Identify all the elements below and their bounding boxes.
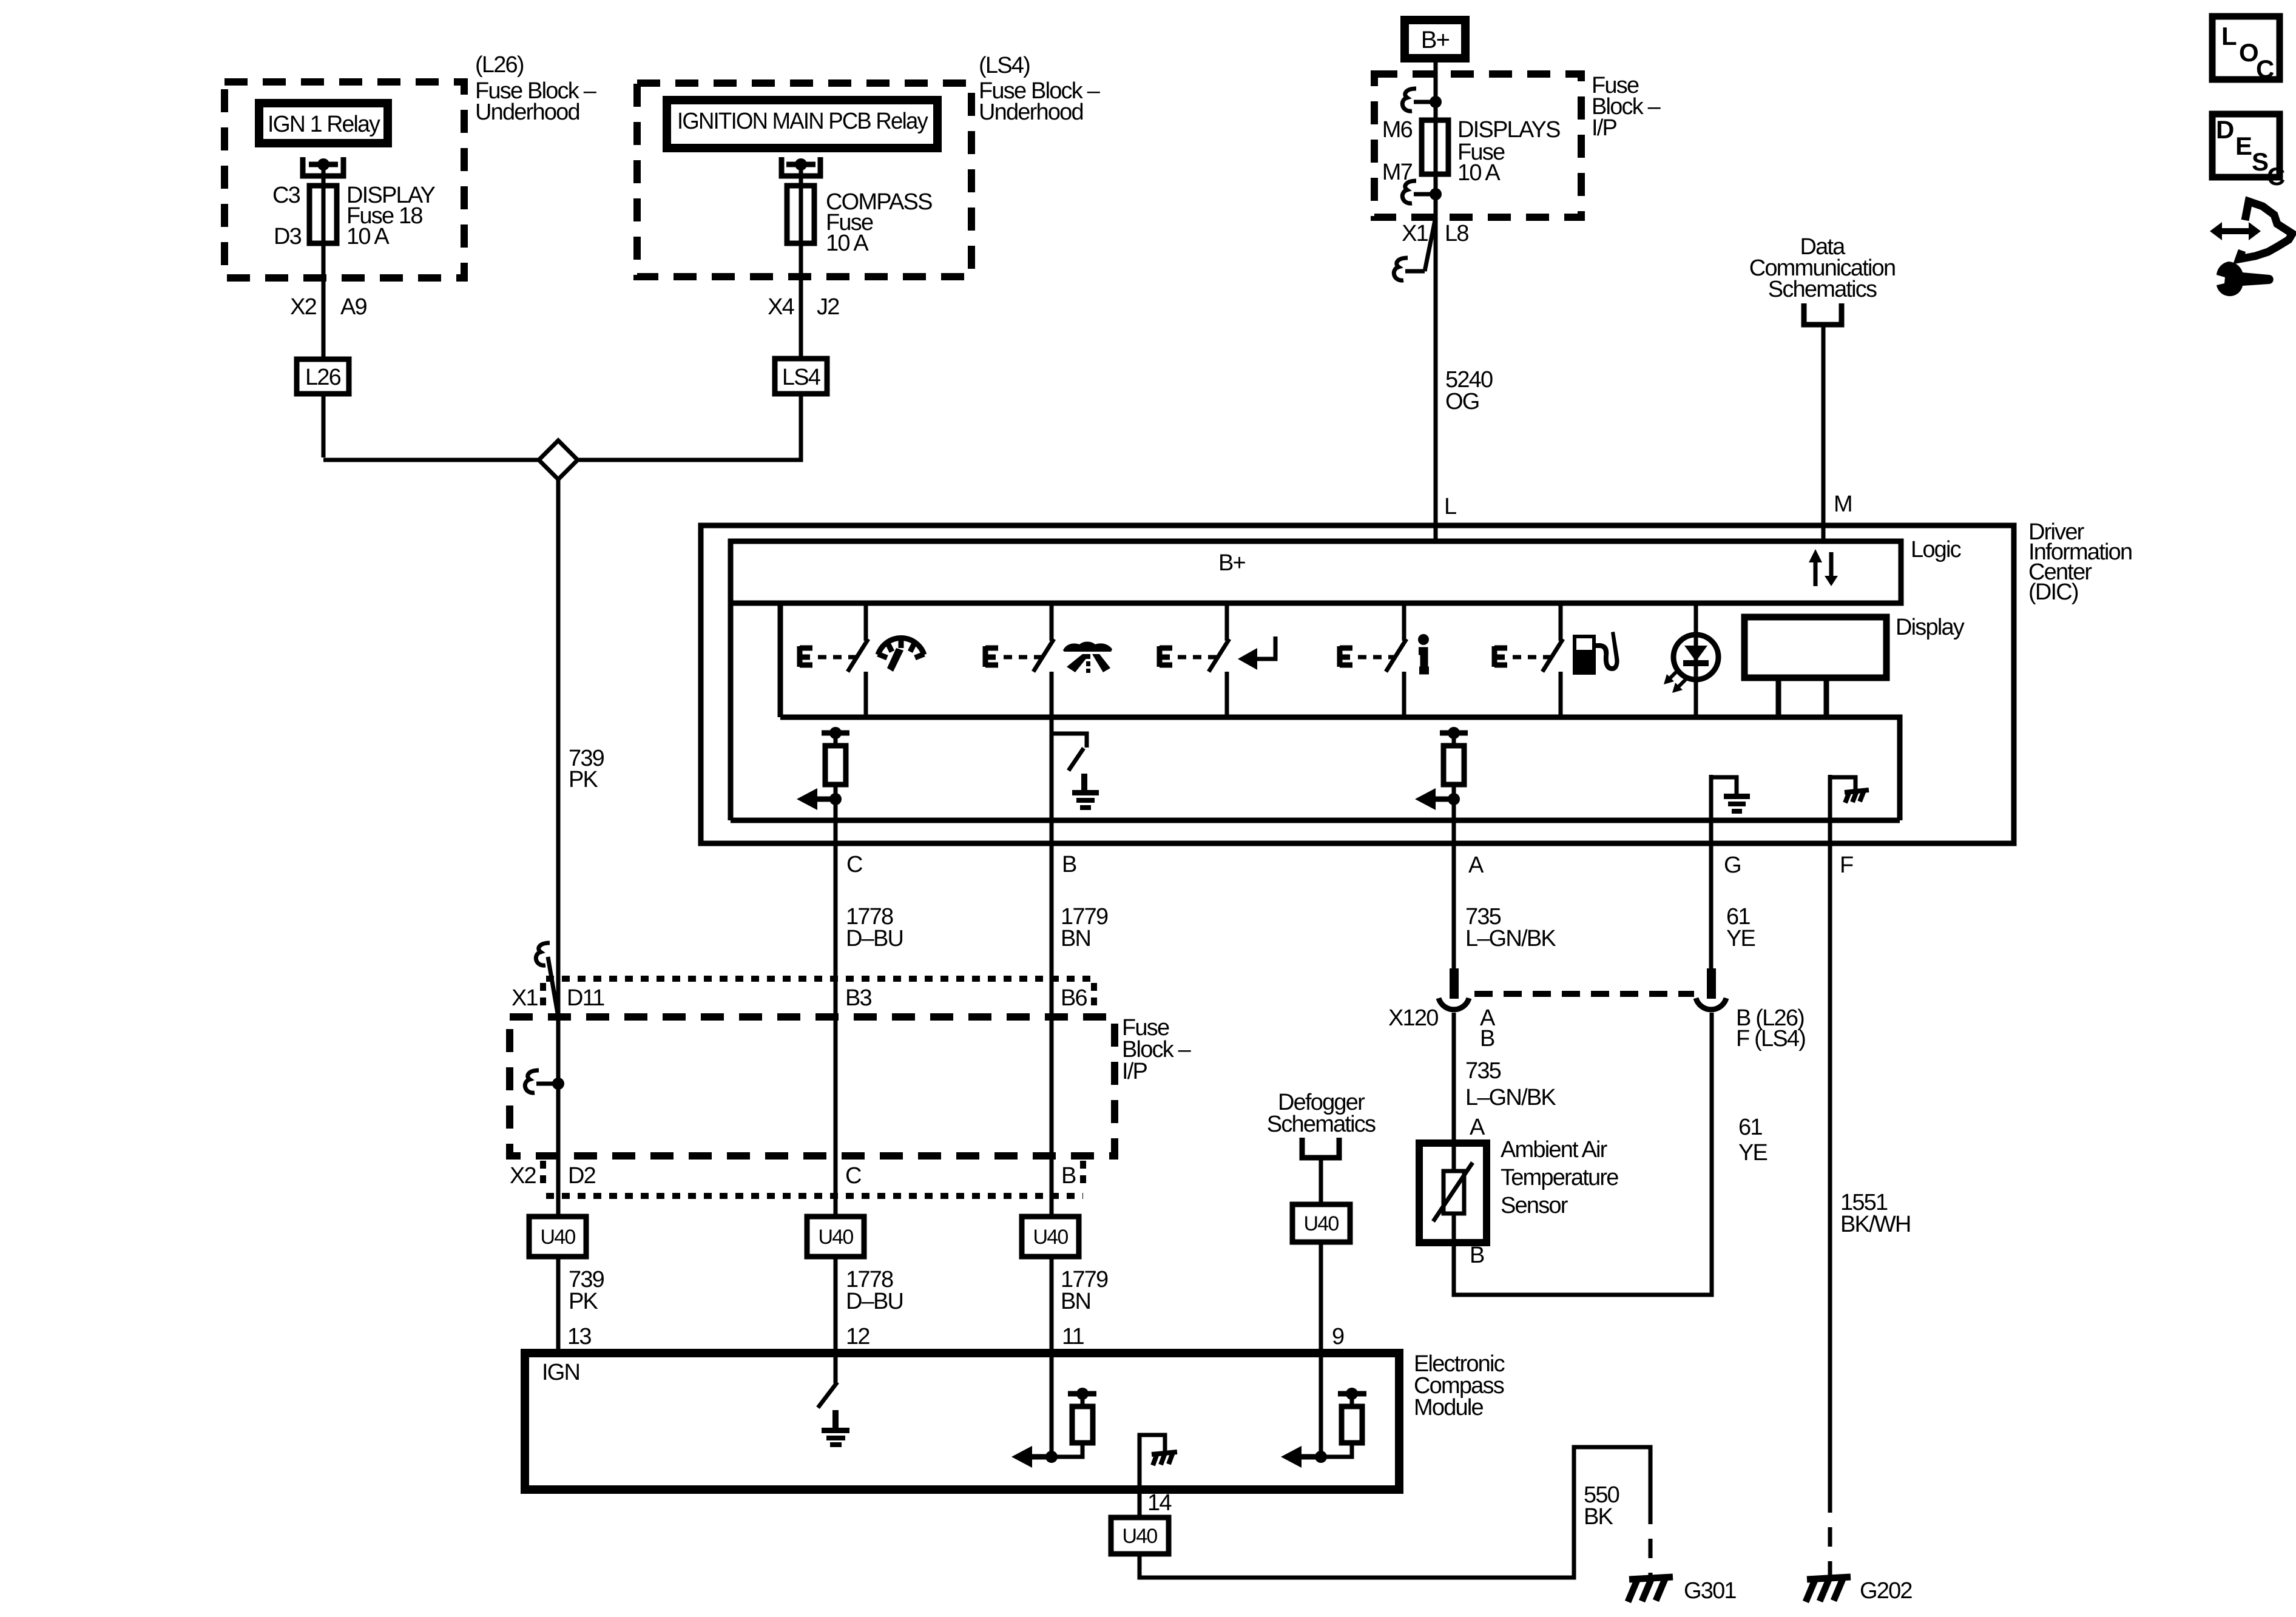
icon info i [1418,634,1429,645]
relay K2 IGNITION MAIN PCB Relay box [667,100,937,148]
svg-text:D–BU: D–BU [846,926,903,951]
svg-text:10 A: 10 A [1457,160,1501,186]
labels X2 D2 C B [510,1163,1076,1189]
node junction dot A branch [1448,793,1460,805]
svg-text:X4: X4 [768,294,795,320]
svg-text:X120: X120 [1388,1005,1438,1031]
module U2 Electronic Compass Module box [525,1353,1399,1490]
ground G202 chassis symbol [1806,1577,1851,1602]
svg-text:735: 735 [1465,1058,1501,1084]
wire relay to compass fuse [799,164,803,186]
svg-text:D2: D2 [568,1163,596,1189]
svg-text:J2: J2 [817,294,839,320]
wire 1779 BN lower with label [1050,1257,1054,1353]
node junction dot M6 [1430,96,1442,108]
wire fuse 18 to L26 ref, pin X2 A9 [322,243,326,359]
legend box LOC [2212,16,2280,79]
svg-text:L8: L8 [1445,221,1468,246]
label Data Communication Schematics [1749,234,1896,302]
terminal clip M7 [1402,181,1416,203]
connector row X1 dotted line [546,976,1093,982]
fuse block underhood (L26) dashed box [225,82,464,278]
label Fuse Block IP middle [1122,1015,1192,1084]
net reference box U40 C column [807,1217,864,1257]
node junction dot C branch [829,793,842,805]
svg-text:L–GN/BK: L–GN/BK [1465,926,1556,951]
svg-text:D–BU: D–BU [846,1289,903,1314]
module U_DIC Driver Information Center outer box [701,525,2014,843]
connector lead X1-D11 diagonal and clip [548,957,558,1017]
wire U40 defogger to module pin 9 [1319,1242,1323,1353]
svg-text:I/P: I/P [1592,115,1617,141]
connector X1 separator dotted [540,983,546,1010]
display pedestal [1776,678,1781,717]
arrow internal module pin 9 [1298,1454,1321,1460]
chassis ground branch F inside DIC [1828,775,1832,843]
label pin L of DIC [1444,494,1456,519]
power symbol B+ box [1405,20,1465,58]
LED photon arrows [1667,669,1687,690]
wire module pin 9 internal [1319,1353,1323,1457]
labels X120 A B and B(L26) F(LS4) [1388,1005,1805,1052]
label pin M of DIC [1834,491,1852,517]
relay K1 IGN 1 Relay box [259,103,388,143]
svg-text:F (LS4): F (LS4) [1736,1026,1805,1052]
svg-text:YE: YE [1726,926,1755,951]
svg-text:U40: U40 [819,1226,854,1249]
wire F 1551 BK/WH [1828,843,1832,1493]
legend icon double arrow with wrench [2210,201,2292,296]
svg-text:Sensor: Sensor [1501,1193,1568,1218]
svg-text:D3: D3 [274,224,302,249]
svg-text:G301: G301 [1684,1578,1736,1604]
switch SW3 with set-reset icon [1160,603,1229,717]
switch to ground on DIC pin B branch [1050,717,1054,843]
wire compass fuse to LS4 ref, pin X4 J2 [799,243,803,359]
resistor R2 on DIC pin A branch [1440,731,1468,736]
svg-text:C: C [845,1163,861,1189]
svg-text:BK/WH: BK/WH [1840,1212,1911,1237]
legend box DESC [2212,114,2280,177]
svg-text:B6: B6 [1061,985,1087,1011]
icon enter arrow [1255,636,1275,659]
svg-text:61: 61 [1738,1115,1762,1140]
net reference box L26 [297,359,349,394]
svg-text:BN: BN [1061,1289,1090,1314]
ground symbol in DIC B branch [1072,774,1099,810]
splice diamond S1 [539,441,578,479]
DIC display block [1744,617,1886,678]
label Defogger Schematics [1267,1090,1376,1137]
node junction dot under IGNITION MAIN PCB relay [786,162,815,167]
svg-text:C: C [2267,162,2285,191]
connector X1 L8 labels [1402,221,1468,246]
svg-text:B: B [1470,1243,1484,1268]
svg-text:12: 12 [846,1324,869,1349]
node junction dot module pin 11 [1045,1451,1058,1463]
net reference box U40 defogger [1292,1204,1350,1242]
net reference box U40 B column [1022,1217,1079,1257]
ground branch G inside DIC [1709,775,1714,843]
label wire 739 PK upper [569,746,604,792]
wire resistor R2 to junction [1452,785,1456,843]
svg-text:LS4: LS4 [782,365,821,390]
resistor R4 module pin 9 pull-up [1338,1391,1366,1397]
svg-text:U40: U40 [1033,1226,1069,1249]
svg-text:D: D [2216,115,2234,144]
svg-text:B3: B3 [845,985,872,1011]
icon fuel pump [1573,632,1619,675]
switch SW5 with fuel icon [1494,603,1563,717]
svg-text:Schematics: Schematics [1267,1112,1376,1137]
icon gauge [878,638,924,658]
relay output terminal bracket [782,157,820,176]
wire resistor R1 to junction [834,785,838,843]
svg-text:Display: Display [1896,615,1965,640]
svg-text:A9: A9 [340,294,367,320]
svg-text:Underhood: Underhood [979,100,1083,125]
wire 550 BK loop from U40 to G301 [1140,1447,1650,1578]
node junction dot 739 PK [552,1078,564,1090]
connector lead X1-L8 diagonal and clip [1425,217,1436,271]
DIC lower inner box walls [728,603,734,820]
svg-text:X2: X2 [510,1163,536,1189]
wire horizontal L26 to splice diamond [323,458,539,462]
svg-text:10 A: 10 A [826,231,869,256]
svg-text:Logic: Logic [1911,537,1961,562]
svg-text:X2: X2 [290,294,317,320]
wire fuse to connector X1 L8 [1434,174,1438,541]
connector row X2 dotted line [546,1193,1083,1199]
svg-text:U40: U40 [1123,1525,1158,1548]
svg-text:L: L [1444,494,1456,519]
serial data arrows in logic block [1815,552,1831,586]
svg-text:U40: U40 [1304,1212,1339,1235]
off-page reference bracket defogger [1302,1138,1339,1158]
relay output terminal bracket [303,157,343,176]
node junction dot module pin 9 [1315,1451,1327,1463]
svg-text:G202: G202 [1860,1578,1912,1604]
svg-text:OG: OG [1445,389,1479,414]
label Fuse Block IP [1592,73,1661,141]
svg-text:PK: PK [569,1289,598,1314]
ground symbol module pin 12 [822,1410,849,1447]
svg-text:U40: U40 [541,1226,576,1249]
svg-text:M6: M6 [1382,117,1413,143]
svg-text:14: 14 [1147,1490,1172,1516]
svg-text:L: L [2221,22,2237,50]
wire B+ to fuse block IP [1434,62,1438,120]
arrow internal C [814,797,836,802]
connector X120 terminal B socket [1696,998,1726,1010]
svg-text:B+: B+ [1218,550,1246,576]
fuse F displays DISPLAYS Fuse 10A [1422,120,1448,174]
svg-text:E: E [2235,132,2252,160]
svg-text:DISPLAYS: DISPLAYS [1457,117,1560,143]
wire module pin 14 to U40 [1138,1490,1142,1517]
svg-text:L26: L26 [305,365,341,390]
wire LS4 down then left to splice diamond [578,394,801,460]
svg-text:11: 11 [1062,1324,1084,1349]
svg-text:G: G [1724,852,1741,878]
terminal clip on 739 PK inside fuse block [525,1070,539,1093]
svg-text:IGN: IGN [542,1360,579,1385]
dashed wire to G202 [1828,1493,1832,1577]
wire splice down (739 PK feed) [556,479,561,1353]
wire module pin 11 internal [1050,1353,1054,1457]
svg-text:B+: B+ [1421,27,1450,53]
svg-text:C3: C3 [272,183,300,208]
resistor R1 on DIC pin C branch [822,731,849,736]
wire X120-A to sensor, 735 L-GN/BK lower [1452,1013,1456,1143]
thermistor RT inside sensor [1443,1171,1464,1214]
fuse block IP middle dashed box [510,1017,1115,1156]
svg-text:S: S [2252,147,2268,176]
sensor B1 Ambient Air Temperature Sensor box [1419,1143,1487,1243]
svg-text:(DIC): (DIC) [2028,579,2078,605]
label wire 5240 OG [1445,367,1493,414]
DIC logic block box [731,541,1901,603]
svg-text:PK: PK [569,767,598,792]
net reference box U40 left [529,1217,586,1257]
connector X2 separator dotted [540,1161,546,1187]
wire sensor B to X120-B loop, 61 YE lower [1454,1013,1712,1295]
labels module pins 13 12 11 9 [567,1324,1344,1349]
svg-text:M: M [1834,491,1852,517]
node junction dot under IGN 1 relay [309,162,338,167]
svg-text:(LS4): (LS4) [979,53,1030,78]
connector X120 dashed link [1474,991,1694,997]
switch to ground on module pin 12 [834,1353,838,1383]
svg-text:IGNITION MAIN PCB Relay: IGNITION MAIN PCB Relay [677,109,928,134]
icon compass dragonfly [1063,642,1112,673]
ground G301 chassis symbol [1628,1577,1673,1602]
svg-text:B: B [1480,1026,1494,1052]
svg-text:O: O [2239,38,2258,67]
label (LS4) Fuse Block Underhood [979,53,1101,125]
switch SW4 with info icon [1340,603,1406,717]
fuse F2 COMPASS Fuse 10A [787,186,814,243]
wire 1778 D-BU lower with label [834,1257,838,1353]
svg-text:9: 9 [1332,1324,1344,1349]
arrow internal module pin 11 [1028,1454,1052,1460]
svg-text:10 A: 10 A [346,224,390,249]
svg-text:13: 13 [567,1324,591,1349]
svg-text:A: A [1470,1115,1485,1140]
arrow internal A [1432,797,1454,802]
svg-text:Temperature: Temperature [1501,1165,1618,1190]
dashed wire to G301 [1649,1505,1653,1577]
wire M data communication to DIC [1822,325,1826,541]
svg-text:C: C [2256,55,2274,83]
svg-text:Module: Module [1414,1395,1483,1420]
svg-text:F: F [1840,852,1853,878]
svg-text:D11: D11 [567,985,604,1011]
wire relay to fuse 18 [322,164,326,186]
svg-text:B: B [1061,1163,1076,1189]
terminal clip M6 [1402,89,1416,111]
wire defogger to U40 [1319,1158,1323,1204]
svg-text:L–GN/BK: L–GN/BK [1465,1085,1556,1110]
svg-text:YE: YE [1738,1140,1768,1166]
svg-text:BK: BK [1584,1504,1613,1530]
svg-text:X1: X1 [1402,221,1428,246]
switch SW1 with gauge icon [800,603,868,717]
switch SW2 with compass icon [985,603,1054,717]
chassis ground module pin 14 [1140,1435,1165,1490]
wire L26 down to splice [322,394,326,457]
connector X120 terminal B male pin [1707,968,1716,999]
svg-text:C: C [846,852,862,877]
labels DIC pins C B A G F [846,852,1853,878]
fuse F18 DISPLAY Fuse 18 10A [309,186,337,243]
svg-text:(L26): (L26) [475,52,524,78]
wire B 1779 BN [1050,843,1054,1217]
connector X120 terminal A male pin [1450,968,1459,999]
svg-text:A: A [1468,852,1484,878]
node junction dot M7 [1430,188,1442,200]
net reference box LS4 [775,359,827,394]
svg-text:Ambient Air: Ambient Air [1501,1137,1608,1163]
svg-text:X1: X1 [512,985,538,1011]
fuse block IP dashed box (top) [1374,74,1581,217]
labels X1 D11 B3 B6 [512,985,1087,1011]
svg-text:Schematics: Schematics [1768,277,1877,302]
wire A 735 L-GN/BK upper [1452,843,1456,995]
connector X120 terminal A socket [1439,998,1469,1010]
DIC lamp row box [778,603,783,717]
svg-text:BN: BN [1061,926,1090,951]
wire 739 PK lower with label [569,1267,604,1314]
LED D1 indicator [1694,603,1698,717]
wire G 61 YE upper [1709,843,1714,995]
resistor R3 module pin 11 pull-up [1068,1391,1096,1397]
label module pin 14 [1147,1490,1172,1516]
svg-text:IGN 1 Relay: IGN 1 Relay [268,112,380,137]
label (L26) Fuse Block Underhood [475,52,597,125]
fuse block underhood (LS4) dashed box [637,83,971,277]
svg-text:Underhood: Underhood [475,100,579,125]
wire C 1778 D-BU [834,843,838,1217]
net reference box U40 ground [1111,1517,1169,1554]
svg-text:I/P: I/P [1122,1059,1147,1084]
off-page reference bracket data communication [1804,303,1842,325]
svg-text:B: B [1062,852,1076,877]
